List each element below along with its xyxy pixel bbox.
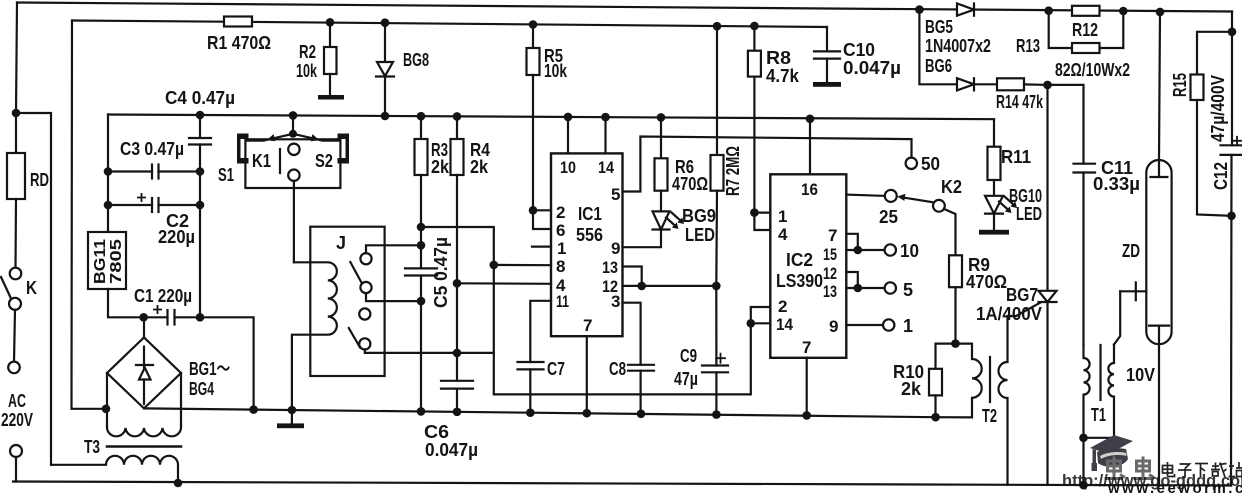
resistor R9	[949, 255, 962, 343]
capacitor C7	[518, 362, 544, 413]
svg-text:1: 1	[903, 316, 913, 336]
svg-text:0.047µ: 0.047µ	[843, 58, 901, 78]
node T1 bottom	[1079, 434, 1088, 443]
svg-text:S2: S2	[315, 151, 333, 171]
svg-text:2k: 2k	[431, 157, 450, 177]
wire IC2 pin14	[751, 322, 771, 324]
resistor R13	[1049, 11, 1124, 53]
svg-text:10k: 10k	[544, 61, 568, 81]
terminal 5	[885, 282, 896, 293]
diode BG5	[957, 4, 974, 16]
wire second bus (+V rail y~115-119)	[108, 115, 994, 120]
resistor R5	[527, 25, 540, 211]
node relay coil ground	[288, 406, 297, 415]
watermark cap logo	[1090, 435, 1133, 454]
svg-text:7: 7	[802, 338, 811, 357]
svg-text:4.7k: 4.7k	[766, 66, 800, 86]
lamp side electrode	[1114, 282, 1146, 344]
svg-text:1: 1	[557, 239, 566, 258]
diode BG6	[919, 10, 997, 91]
svg-text:10V: 10V	[1126, 365, 1155, 385]
node ground bus C9 line	[712, 410, 721, 419]
wire RD node to x=51 drop	[16, 113, 51, 465]
wire IC2 pin2 jog	[751, 307, 771, 323]
svg-text:5: 5	[903, 280, 913, 300]
capacitor C12	[1221, 137, 1242, 155]
watermark zi glyph	[1178, 464, 1192, 477]
svg-text:11: 11	[556, 292, 569, 311]
terminal 1	[883, 319, 894, 330]
svg-text:LS390: LS390	[776, 271, 823, 291]
wire IC2 pin15 to terminal 10	[846, 249, 884, 251]
node pin10	[564, 113, 573, 122]
svg-text:J: J	[336, 233, 346, 253]
svg-text:50: 50	[921, 154, 940, 174]
svg-text:556: 556	[576, 225, 603, 245]
svg-text:2k: 2k	[901, 379, 922, 399]
label C1 plus	[153, 305, 162, 314]
relay contact blade 2	[349, 328, 360, 347]
node RD top	[12, 109, 21, 118]
svg-text:220V: 220V	[1, 410, 33, 430]
node ground bus C5 line	[417, 407, 426, 416]
svg-text:R7 2MΩ: R7 2MΩ	[723, 146, 743, 196]
wire IC2 pin16	[809, 119, 811, 175]
resistor R10	[929, 344, 956, 418]
svg-text:9: 9	[829, 317, 838, 336]
resistor R14	[997, 78, 1048, 90]
wire pin2	[533, 209, 551, 211]
svg-text:BG9: BG9	[682, 206, 716, 226]
watermark zhan glyph	[1229, 462, 1242, 477]
node pin12/13	[637, 282, 646, 291]
wire right border (lower, C12 bottom to bottom line)	[1230, 155, 1233, 486]
capacitor C3	[108, 165, 200, 179]
svg-text:R14 47k: R14 47k	[996, 92, 1044, 112]
node bridge AC left	[102, 405, 111, 414]
node T3 primary right	[174, 479, 183, 488]
svg-text:82Ω/10Wx2: 82Ω/10Wx2	[1055, 60, 1130, 80]
svg-text:3: 3	[611, 292, 620, 311]
node ground bus C8 line	[637, 410, 646, 419]
svg-text:C10: C10	[843, 40, 875, 60]
node sensor top	[289, 111, 298, 120]
svg-text:BG8: BG8	[403, 50, 429, 70]
node C1 right	[196, 313, 205, 322]
svg-text:R2: R2	[299, 42, 316, 62]
watermark zai glyph	[1211, 463, 1227, 478]
node ground bus C7 line	[526, 408, 535, 417]
regulator U BG11 7805	[88, 232, 144, 317]
svg-text:BG6: BG6	[925, 56, 952, 76]
svg-text:RD: RD	[30, 170, 49, 190]
wire IC1 pin7 ground	[586, 336, 588, 413]
svg-text:T1: T1	[1091, 405, 1106, 425]
relay contact blade 1	[350, 262, 362, 284]
svg-text:9: 9	[611, 239, 620, 258]
svg-text:T3: T3	[84, 437, 100, 457]
svg-text:R8: R8	[766, 48, 791, 68]
node c2 wire	[417, 297, 426, 306]
switch K2 pivot	[897, 194, 945, 212]
svg-text:IC1: IC1	[578, 204, 602, 224]
svg-text:14: 14	[776, 315, 793, 334]
svg-text:IC2: IC2	[786, 250, 813, 270]
wire IC2 pin1	[754, 212, 770, 214]
wire C1 node to ground bus	[200, 317, 254, 409]
svg-text:C12: C12	[1211, 162, 1231, 190]
touch sensor block S1 K1 S2	[237, 115, 349, 262]
diode BG8	[376, 23, 394, 116]
relay contact c2	[360, 282, 421, 301]
resistor R11	[988, 119, 1001, 196]
node R7 timing	[712, 282, 721, 291]
svg-text:C3 0.47µ: C3 0.47µ	[120, 139, 184, 159]
node C2 right	[196, 201, 205, 210]
svg-text:16: 16	[801, 180, 818, 199]
svg-text:R11: R11	[1001, 147, 1031, 167]
transformer T2 core	[989, 357, 991, 402]
wire IC2 pin9 to terminal 1	[846, 324, 883, 326]
node pin12/13 IC2	[854, 284, 863, 293]
bridge rectifier BG1-BG4	[107, 317, 181, 427]
wire pin6 jog	[533, 210, 551, 229]
wire bottom AC line	[13, 482, 1231, 486]
svg-text:C1 220µ: C1 220µ	[134, 286, 192, 306]
wire left border	[16, 3, 17, 114]
svg-text:6: 6	[556, 221, 565, 240]
relay contact c1	[360, 245, 421, 264]
capacitor C11	[1048, 85, 1096, 345]
terminal 10	[885, 244, 896, 255]
node C3 left	[104, 167, 113, 176]
svg-text:BG10: BG10	[1009, 186, 1042, 206]
capacitor C8	[628, 365, 654, 414]
node c1 wire	[417, 241, 426, 250]
node R3 top	[417, 112, 426, 121]
svg-text:R13: R13	[1016, 36, 1040, 56]
resistor R15	[1191, 32, 1233, 216]
transformer T3 secondary	[107, 427, 181, 437]
transformer T3 primary	[51, 456, 178, 483]
IC op U IC1 556 box	[551, 153, 623, 336]
capacitor C6	[441, 381, 473, 412]
transformer T2 primary	[956, 344, 982, 418]
wire right border (upper, to C12 top plate)	[1231, 12, 1233, 146]
wire IC2 pin7 bottom ground	[806, 358, 808, 416]
svg-text:C4 0.47µ: C4 0.47µ	[165, 88, 235, 108]
svg-text:ZD: ZD	[1122, 241, 1140, 261]
thyristor BG7	[1039, 85, 1057, 485]
resistor R8	[748, 26, 761, 213]
svg-text:LED: LED	[1016, 204, 1042, 224]
transformer T1 right winding	[1084, 345, 1115, 438]
terminal AC L	[8, 362, 20, 374]
LED BG10	[985, 196, 1017, 214]
svg-text:47µ/400V: 47µ/400V	[1208, 75, 1228, 142]
transformer T2 secondary	[999, 303, 1041, 485]
watermark chong glyph 2	[1134, 457, 1155, 479]
svg-text:8: 8	[556, 257, 565, 276]
svg-text:470Ω: 470Ω	[966, 272, 1007, 292]
node R5 bottom / IC1 pin2	[529, 206, 538, 215]
capacitor C5	[405, 268, 437, 411]
node BG8 top	[381, 18, 390, 27]
node T1 bottom line	[1079, 481, 1088, 490]
capacitor C2	[108, 198, 200, 212]
wire IC1 pin14	[604, 117, 606, 153]
node pin7/15	[854, 246, 863, 255]
wire pin11 to C7	[530, 301, 551, 362]
IC op U IC2 LS390 box	[770, 174, 846, 357]
svg-text:14: 14	[598, 158, 614, 177]
svg-text:4: 4	[778, 225, 788, 244]
terminal 50	[906, 158, 917, 169]
node R8 top	[750, 22, 759, 31]
resistor R7	[711, 26, 724, 365]
lamp tube ZD	[1146, 12, 1171, 485]
svg-text:S1: S1	[218, 165, 234, 185]
svg-text:2: 2	[778, 297, 787, 316]
svg-text:K2: K2	[941, 177, 962, 197]
wire IC2 pin7 right	[846, 234, 858, 250]
node R15 top	[1228, 28, 1237, 37]
svg-text:470Ω: 470Ω	[672, 174, 708, 194]
label C2 plus	[137, 193, 146, 202]
svg-text:C6: C6	[424, 422, 449, 442]
svg-text:10k: 10k	[296, 61, 318, 81]
svg-text:LED: LED	[685, 225, 715, 245]
svg-text:10: 10	[900, 241, 919, 261]
node R12 right	[1119, 7, 1128, 16]
svg-text:47µ: 47µ	[674, 369, 698, 389]
resistor R12	[1072, 6, 1100, 16]
svg-text:C9: C9	[680, 346, 697, 366]
node pin4 wire	[453, 279, 462, 288]
svg-text:220µ: 220µ	[158, 227, 195, 247]
watermark xia glyph	[1195, 464, 1208, 478]
transformer T1 core	[1099, 345, 1101, 400]
node ZD feed	[1156, 8, 1165, 17]
wire IC1 pin3 to C8	[623, 303, 641, 365]
node IC2 pins1/4	[750, 208, 759, 217]
fuse RD	[7, 113, 25, 268]
svg-text:1: 1	[778, 207, 787, 226]
node c4 wire	[453, 349, 462, 358]
wire T1 to bottom line	[1082, 438, 1084, 485]
node C3 right	[196, 167, 205, 176]
transformer T1 left winding	[1084, 345, 1090, 438]
wire K2 to R9	[944, 209, 956, 255]
svg-text:AC: AC	[8, 391, 26, 411]
svg-text:5: 5	[611, 185, 620, 204]
watermark dian glyph	[1163, 462, 1175, 477]
svg-text:T2: T2	[982, 406, 997, 426]
svg-text:BG1～: BG1～	[189, 359, 230, 379]
svg-text:2k: 2k	[470, 157, 489, 177]
wire IC2 pin12 right	[846, 272, 858, 288]
wire frame vertical x=72 down to bridge AC node	[72, 21, 107, 409]
node ground bus IC1 pin7	[583, 409, 592, 418]
wire pin1 stub	[532, 246, 551, 248]
svg-text:1N4007x2: 1N4007x2	[925, 36, 991, 56]
transformer T3 core	[107, 445, 181, 448]
svg-text:13: 13	[602, 258, 618, 277]
svg-text:2: 2	[556, 203, 565, 222]
capacitor C4	[189, 115, 211, 317]
wire IC2 pin13 to terminal 5	[846, 287, 884, 289]
ground BG10	[979, 214, 1009, 235]
wire pin4	[457, 282, 551, 285]
svg-text:BG5: BG5	[925, 17, 953, 37]
capacitor C10	[814, 27, 840, 82]
node R15 bottom	[1227, 212, 1236, 221]
capacitor C1	[144, 310, 200, 325]
wire node227 to pin8 riser	[421, 227, 751, 394]
node pin14	[601, 113, 610, 122]
node R12 left	[1044, 6, 1053, 15]
svg-text:12: 12	[823, 264, 837, 283]
terminal 25	[885, 190, 897, 202]
node IC2 pins2/14	[747, 319, 756, 328]
resistor R1	[224, 17, 252, 27]
relay J coil	[292, 262, 337, 410]
resistor R4	[451, 116, 464, 380]
wire IC2 out to terminal 25	[846, 195, 885, 196]
svg-text:www.eeworm.com: www.eeworm.com	[1107, 480, 1242, 494]
node R9 bottom	[951, 339, 960, 348]
svg-text:C8: C8	[609, 359, 626, 379]
node C4 top	[196, 111, 205, 120]
ground symbol relay	[277, 410, 304, 428]
node DC- drop	[249, 405, 258, 414]
svg-text:C5 0.47µ: C5 0.47µ	[431, 237, 451, 308]
node ground bus IC2 pin7	[802, 411, 811, 420]
wire left cap rail x=108	[107, 115, 109, 233]
resistor R2	[324, 22, 337, 95]
svg-text:C7: C7	[547, 359, 565, 379]
node R2 top	[326, 18, 335, 27]
node R7 top	[713, 22, 722, 31]
ground R2	[318, 95, 344, 100]
svg-text:R12: R12	[1072, 20, 1098, 40]
wire top supply bus left segment	[72, 21, 224, 22]
watermark group	[1062, 435, 1242, 494]
svg-text:10: 10	[560, 158, 576, 177]
svg-text:R15: R15	[1170, 73, 1190, 97]
svg-text:7: 7	[583, 316, 592, 335]
node C1 left	[139, 313, 148, 322]
node R3/C5 to pin8 riser	[417, 223, 426, 232]
wire pin8	[494, 264, 551, 267]
resistor R6	[655, 117, 668, 211]
svg-text:BG4: BG4	[189, 379, 214, 399]
switch K	[1, 268, 21, 362]
node ground bus C6 line	[453, 408, 462, 417]
relay contact c3	[359, 308, 370, 319]
watermark chong glyph 1	[1105, 457, 1126, 479]
terminal AC N	[10, 445, 22, 482]
wire IC1 pin9 to LED	[623, 230, 662, 248]
node pin16	[806, 115, 815, 124]
svg-text:BG7: BG7	[1006, 285, 1038, 305]
wire IC1 pin10	[567, 117, 569, 153]
wire IC2 pin4 jog	[754, 213, 770, 230]
wire IC1 pin12 to R7	[623, 285, 717, 287]
node BG8 bottom	[381, 112, 390, 121]
LED BG9	[653, 211, 685, 229]
svg-text:R1 470Ω: R1 470Ω	[207, 33, 271, 53]
svg-text:1A/400V: 1A/400V	[976, 304, 1042, 324]
node R5 top	[529, 20, 538, 29]
node pin8	[490, 261, 499, 270]
ground C10	[813, 82, 841, 87]
svg-text:7805: 7805	[108, 239, 125, 284]
resistor R3	[415, 116, 428, 268]
node C2 left	[104, 201, 113, 210]
wire top supply bus right segment	[252, 22, 827, 27]
svg-text:25: 25	[879, 207, 898, 227]
wire IC1 pin5 to terminal 50	[623, 137, 912, 192]
wire IC1 pin13	[623, 267, 642, 286]
wire outer top border	[17, 3, 1232, 12]
node R14 right	[1043, 81, 1052, 90]
node ground bus R10	[931, 413, 940, 422]
svg-text:K: K	[26, 278, 37, 298]
capacitor C9	[702, 354, 728, 415]
svg-text:BG11: BG11	[92, 239, 109, 284]
wire ground bus	[144, 408, 972, 417]
relay J box	[310, 227, 384, 376]
node R6 top	[657, 113, 666, 122]
svg-text:0.33µ: 0.33µ	[1093, 174, 1140, 194]
node R4 top	[453, 112, 462, 121]
svg-text:15: 15	[823, 245, 837, 264]
svg-text:7: 7	[828, 226, 837, 245]
svg-text:13: 13	[823, 282, 837, 301]
node BG5 branch	[915, 5, 924, 14]
svg-text:K1: K1	[252, 151, 271, 171]
relay contact c4	[359, 338, 494, 353]
svg-text:0.047µ: 0.047µ	[425, 440, 478, 460]
